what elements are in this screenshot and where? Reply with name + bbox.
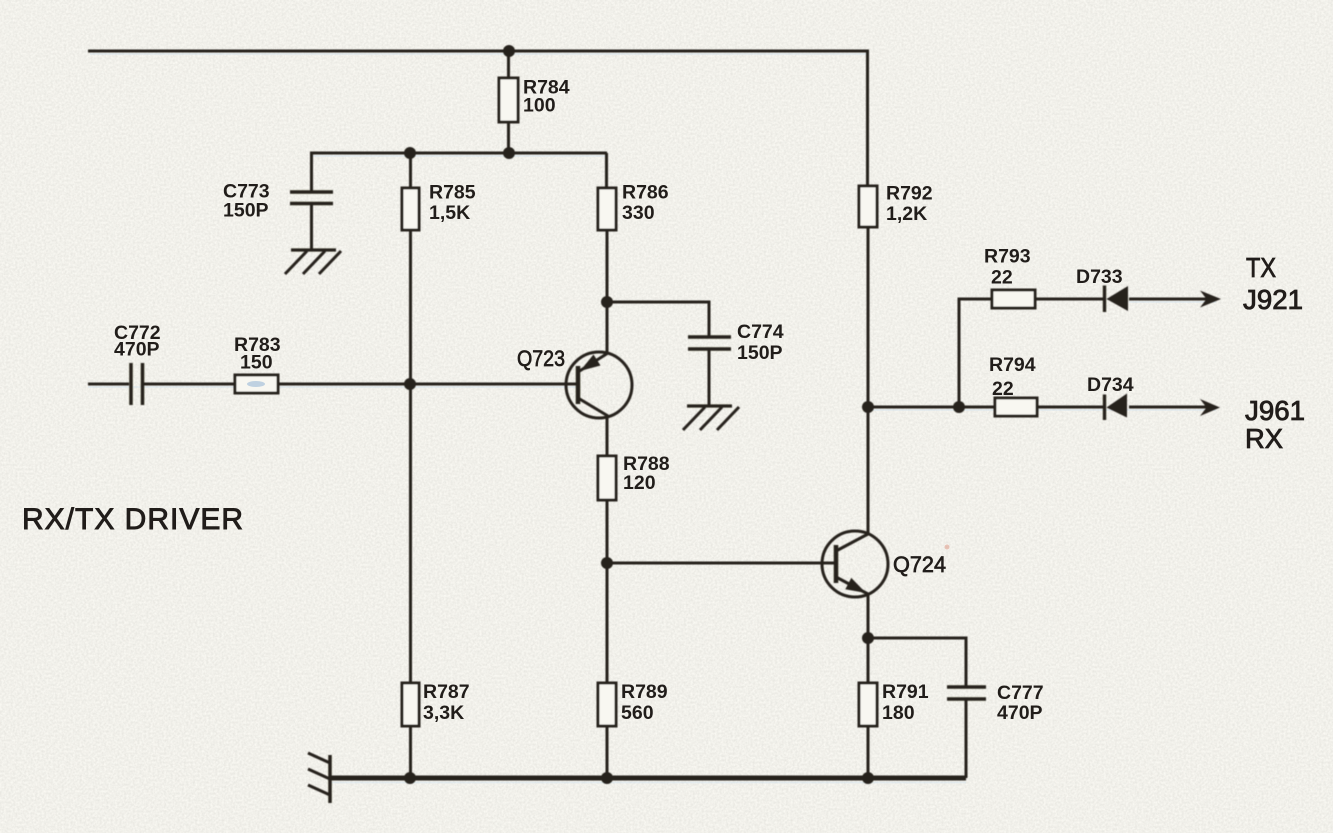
svg-text:22: 22 bbox=[992, 378, 1014, 400]
svg-text:560: 560 bbox=[621, 702, 654, 724]
wire R789 to ground rail bbox=[606, 726, 609, 778]
arrow TX output bbox=[1200, 291, 1221, 308]
node junction top rail / R784 bbox=[503, 45, 515, 57]
capacitor C772 bbox=[131, 363, 143, 405]
wire Q723 top lead bbox=[606, 302, 609, 353]
resistor R791 bbox=[859, 638, 877, 778]
resistor R786 bbox=[598, 153, 616, 302]
svg-text:120: 120 bbox=[623, 472, 656, 494]
wire R794 to D734 bbox=[1037, 406, 1104, 409]
node junction R788 / Q724 base bbox=[601, 557, 613, 569]
wire R783 to Q723 base bbox=[278, 383, 578, 386]
svg-text:150: 150 bbox=[240, 352, 273, 374]
node junction second rail / R785 bbox=[404, 147, 416, 159]
svg-text:C774: C774 bbox=[737, 321, 784, 343]
wire R785 to input node bbox=[409, 230, 412, 387]
ground below C774 bbox=[683, 406, 739, 430]
resistor R792 bbox=[859, 186, 877, 407]
wire D733 to TX arrow bbox=[1129, 298, 1214, 301]
svg-text:3,3K: 3,3K bbox=[423, 702, 464, 724]
svg-text:R789: R789 bbox=[621, 681, 668, 703]
capacitor C773 bbox=[290, 192, 333, 250]
svg-text:470P: 470P bbox=[997, 702, 1043, 724]
wire node to C777 bbox=[868, 638, 966, 687]
node junction output / TX branch bbox=[953, 401, 965, 413]
svg-text:150P: 150P bbox=[223, 200, 269, 222]
svg-text:330: 330 bbox=[622, 202, 655, 224]
wire TX branch up bbox=[959, 299, 992, 407]
label C772 value bbox=[114, 322, 161, 361]
svg-text:D733: D733 bbox=[1076, 266, 1123, 288]
svg-text:D734: D734 bbox=[1087, 374, 1134, 396]
svg-text:100: 100 bbox=[523, 95, 556, 117]
wire R793 to D733 bbox=[1035, 298, 1104, 301]
svg-text:C777: C777 bbox=[997, 682, 1044, 704]
transistor Q724 bbox=[822, 531, 888, 597]
wire C772 to R783 bbox=[144, 383, 235, 386]
transistor Q723 bbox=[566, 352, 632, 418]
label R787 value bbox=[423, 681, 470, 724]
resistor R787 bbox=[402, 683, 419, 726]
svg-text:J961: J961 bbox=[1245, 395, 1305, 426]
wire output node right bbox=[868, 406, 995, 409]
svg-text:J921: J921 bbox=[1243, 284, 1303, 315]
svg-text:22: 22 bbox=[991, 267, 1013, 289]
wire node to Q724 base bbox=[607, 562, 836, 565]
wire down to C773 bbox=[310, 153, 313, 192]
node junction Q723 collector / C774 bbox=[601, 296, 613, 308]
node junction Q724 emitter / C777 bbox=[862, 632, 874, 644]
resistor R785 bbox=[402, 153, 419, 230]
ground below C773 bbox=[285, 250, 341, 274]
resistor R794 bbox=[995, 398, 1037, 416]
resistor R788 bbox=[598, 456, 616, 500]
svg-text:R785: R785 bbox=[429, 182, 476, 204]
svg-text:RX: RX bbox=[1245, 423, 1283, 454]
node junction rail / R789 bbox=[601, 772, 613, 784]
label R794 value bbox=[989, 354, 1036, 400]
wire D734 to RX arrow bbox=[1129, 406, 1214, 409]
resistor R793 bbox=[992, 290, 1035, 308]
wire ground rail bbox=[330, 776, 966, 781]
svg-text:R793: R793 bbox=[984, 246, 1031, 268]
wire second rail bbox=[310, 152, 607, 155]
label R789 value bbox=[621, 681, 668, 724]
svg-text:R791: R791 bbox=[882, 681, 929, 703]
diode D734 bbox=[1105, 394, 1128, 421]
svg-text:150P: 150P bbox=[737, 342, 783, 364]
resistor R784 bbox=[499, 51, 518, 153]
diode D733 bbox=[1105, 286, 1129, 313]
resistor R783 bbox=[235, 375, 278, 393]
arrow RX output bbox=[1200, 399, 1220, 416]
svg-text:R792: R792 bbox=[886, 183, 933, 205]
ground chassis left of rail bbox=[308, 753, 330, 803]
svg-text:1,2K: 1,2K bbox=[886, 203, 927, 225]
svg-text:R794: R794 bbox=[989, 354, 1036, 376]
node junction rail / R787 bbox=[404, 772, 416, 784]
node junction second rail / R784 bbox=[503, 147, 515, 159]
label R788 value bbox=[623, 453, 670, 494]
svg-text:R787: R787 bbox=[423, 681, 470, 703]
wire node to C774 bbox=[607, 302, 709, 337]
node junction R792 / Q724 collector / output bbox=[862, 401, 874, 413]
resistor R789 bbox=[598, 683, 616, 726]
wire top supply rail bbox=[88, 50, 869, 53]
wire right branch down to R792 bbox=[866, 51, 869, 186]
node junction rail / R791 bbox=[862, 772, 874, 784]
svg-text:TX: TX bbox=[1246, 252, 1276, 283]
label R783 value bbox=[234, 334, 281, 374]
label C774 value bbox=[737, 321, 784, 364]
svg-text:470P: 470P bbox=[114, 339, 160, 361]
label C777 value bbox=[997, 682, 1044, 724]
wire Q724 collector up bbox=[867, 407, 870, 534]
capacitor C774 bbox=[688, 337, 731, 406]
capacitor C777 bbox=[947, 687, 986, 778]
svg-text:1,5K: 1,5K bbox=[429, 202, 470, 224]
speck bbox=[945, 545, 950, 550]
label R793 value bbox=[984, 246, 1031, 289]
label R784 value bbox=[523, 77, 570, 117]
wire input node down to R787 bbox=[409, 387, 412, 683]
wire node down to R789 bbox=[606, 563, 609, 683]
pen mark on R783 bbox=[247, 381, 265, 387]
svg-text:Q724: Q724 bbox=[893, 552, 946, 577]
wire R788 to node bbox=[606, 500, 609, 563]
wire Q723 emitter to R788 bbox=[606, 416, 609, 456]
label C773 value bbox=[223, 181, 270, 222]
svg-text:RX/TX DRIVER: RX/TX DRIVER bbox=[22, 503, 243, 536]
label R786 value bbox=[622, 182, 669, 225]
wire R787 to ground rail bbox=[409, 726, 412, 778]
wire Q724 emitter down bbox=[867, 594, 870, 638]
wire input line bbox=[88, 383, 129, 386]
label R791 value bbox=[882, 681, 929, 724]
svg-text:Q723: Q723 bbox=[517, 346, 565, 371]
label R785 value bbox=[429, 182, 476, 225]
node junction input / divider bbox=[404, 378, 416, 390]
svg-text:R786: R786 bbox=[622, 182, 669, 204]
label R792 value bbox=[886, 183, 933, 226]
svg-text:180: 180 bbox=[882, 702, 915, 724]
